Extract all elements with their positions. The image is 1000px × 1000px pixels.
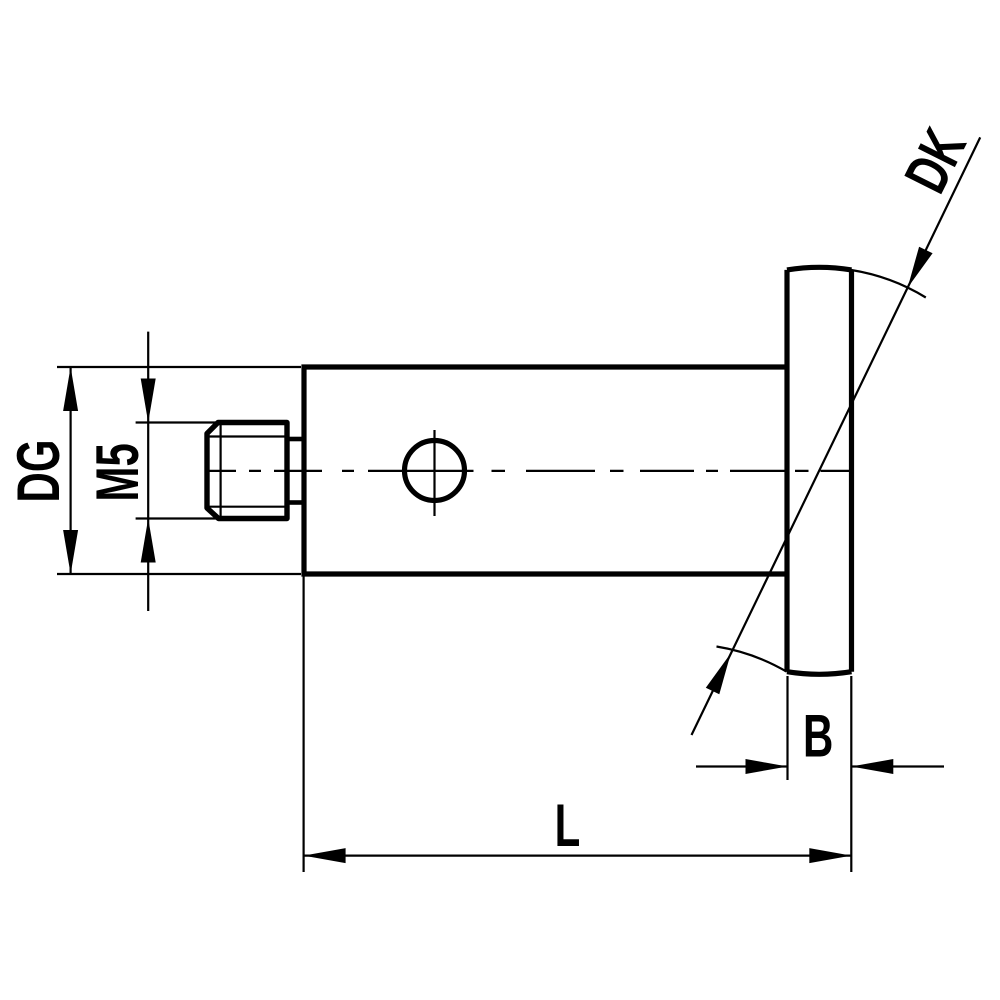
svg-text:DK: DK [891, 118, 978, 202]
svg-text:B: B [803, 702, 833, 769]
svg-text:M5: M5 [84, 443, 151, 501]
svg-text:DG: DG [5, 440, 72, 503]
svg-text:L: L [555, 791, 581, 858]
